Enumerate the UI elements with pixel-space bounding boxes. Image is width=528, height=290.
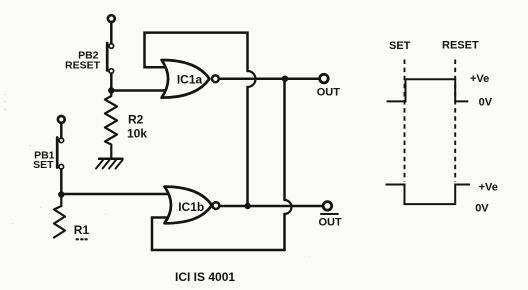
svg-text:0V: 0V	[479, 96, 493, 108]
svg-text:+Ve: +Ve	[470, 73, 489, 85]
svg-text:RESET: RESET	[442, 39, 479, 51]
svg-text:SET: SET	[389, 40, 411, 52]
svg-text:IC1a: IC1a	[177, 73, 203, 87]
svg-text:R1: R1	[74, 223, 90, 237]
svg-text:IC1b: IC1b	[178, 200, 204, 214]
svg-text:+Ve: +Ve	[479, 181, 498, 193]
svg-text:R2: R2	[128, 113, 144, 127]
svg-text:OUT: OUT	[317, 86, 341, 98]
svg-text:OUT: OUT	[319, 217, 343, 229]
svg-text:ICI IS 4001: ICI IS 4001	[175, 270, 235, 284]
svg-text:SET: SET	[33, 159, 54, 171]
svg-text:0V: 0V	[475, 203, 489, 215]
svg-text:10k: 10k	[127, 127, 147, 141]
svg-text:RESET: RESET	[65, 60, 101, 72]
